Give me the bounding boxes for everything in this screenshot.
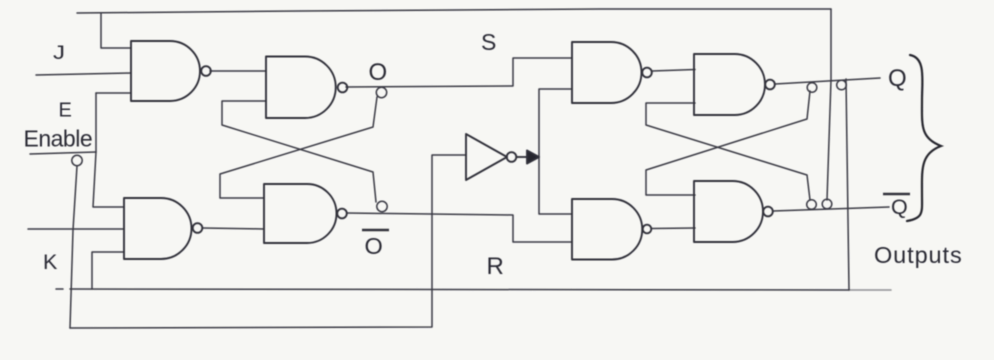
- svg-text:K: K: [43, 250, 58, 274]
- svg-text:R: R: [487, 253, 504, 280]
- svg-text:Q: Q: [891, 195, 908, 219]
- svg-text:Q: Q: [888, 65, 907, 92]
- svg-text:Enable: Enable: [24, 126, 93, 152]
- svg-text:J: J: [53, 43, 65, 64]
- svg-text:S: S: [481, 29, 496, 55]
- svg-text:O: O: [365, 233, 383, 259]
- svg-text:E: E: [59, 100, 72, 122]
- svg-text:O: O: [369, 59, 388, 86]
- svg-text:Outputs: Outputs: [874, 242, 963, 268]
